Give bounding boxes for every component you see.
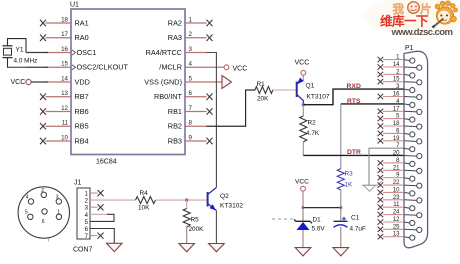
svg-text:10K: 10K [138, 205, 150, 212]
J1 pin numbers [85, 192, 89, 241]
svg-text:KT3107: KT3107 [307, 94, 330, 101]
wire RA4/RTCC to Q2 collector [207, 53, 217, 188]
svg-text:RB5: RB5 [75, 122, 89, 131]
svg-text:4.0 MHz: 4.0 MHz [14, 57, 38, 64]
svg-text:17: 17 [393, 106, 400, 112]
svg-text:RA2: RA2 [168, 19, 182, 28]
transistor Q2 KT3102 [208, 188, 244, 211]
P1 pin 25 [378, 224, 422, 232]
pin 15 OSC2 [46, 66, 72, 68]
NC X pin6 [207, 94, 213, 101]
svg-text:17: 17 [61, 31, 68, 38]
svg-text:VSS (GND): VSS (GND) [144, 78, 182, 87]
ground below R5 [179, 244, 195, 252]
svg-text:4.7uF: 4.7uF [350, 226, 366, 233]
svg-text:RTS: RTS [347, 98, 361, 105]
svg-text:2: 2 [189, 31, 193, 38]
svg-text:R4: R4 [140, 190, 149, 197]
svg-text:1K: 1K [345, 182, 354, 189]
crystal Y1 [3, 46, 38, 65]
NC X J1 pin3 [98, 204, 104, 210]
NC X pin2 [207, 35, 213, 42]
svg-text:20K: 20K [257, 96, 269, 103]
svg-text:RB7: RB7 [75, 92, 89, 101]
P1 pin 6 [378, 128, 415, 137]
resistor R3 (blue) [337, 169, 353, 208]
svg-text:U1: U1 [70, 2, 79, 9]
pin 8 RB2 [185, 125, 207, 127]
svg-text:9: 9 [189, 135, 193, 142]
P1 pin 5 [378, 114, 415, 123]
P1 pin 7 [396, 143, 415, 152]
P1 pin 18 [378, 121, 422, 129]
svg-text:RB6: RB6 [75, 107, 89, 116]
P1 pin 17 [378, 106, 422, 114]
P1 pin 10 [378, 187, 415, 196]
DIN pin 1 [56, 214, 61, 219]
P1 pin 1 [378, 55, 415, 64]
svg-text:OSC2/CLKOUT: OSC2/CLKOUT [77, 63, 129, 72]
svg-text:12: 12 [61, 105, 68, 112]
resistor R4 [136, 190, 156, 212]
svg-text:VCC: VCC [295, 179, 309, 186]
svg-text:24: 24 [393, 210, 400, 216]
pin 16 OSC1 [46, 52, 72, 54]
svg-text:RB2: RB2 [168, 122, 182, 131]
LEFTPARTS [3, 39, 49, 86]
svg-text:5: 5 [25, 210, 28, 216]
P1 pin 14 [378, 62, 422, 70]
svg-text:22: 22 [393, 180, 400, 186]
svg-text:200K: 200K [189, 226, 205, 233]
svg-text:P1: P1 [405, 45, 414, 52]
svg-text:R5: R5 [191, 217, 200, 224]
svg-text:2: 2 [41, 188, 44, 194]
power VCC above D1 [295, 179, 309, 208]
U1 left pins [46, 23, 72, 141]
resistor R1 [255, 81, 273, 103]
DIN socket outline [18, 187, 69, 238]
pin 4 /MCLR [185, 66, 224, 68]
svg-text:R3: R3 [345, 171, 354, 178]
svg-text:RXD: RXD [347, 83, 361, 90]
svg-text:8: 8 [189, 120, 193, 127]
pin 18 RA1 [46, 22, 72, 24]
svg-text:RA4/RTCC: RA4/RTCC [146, 48, 182, 57]
NC X pin13 [40, 94, 46, 101]
svg-text:Q1: Q1 [306, 83, 315, 90]
svg-text:4: 4 [189, 61, 193, 68]
P1 [378, 45, 428, 248]
NC X pin1 [207, 20, 213, 26]
U1 left pin numbers [61, 17, 68, 142]
U1 right pins [185, 23, 224, 141]
DIN pin 6 [42, 209, 47, 214]
op-amp U1 body (PIC 16C84 IC box) [70, 2, 185, 166]
NC X pin17 [40, 35, 46, 42]
P1 pin 2 [378, 69, 415, 78]
svg-text:VCC: VCC [11, 79, 26, 86]
J1 pin 1 stub [90, 192, 98, 194]
ground below Q2 [209, 244, 225, 252]
svg-text:11: 11 [62, 120, 69, 127]
svg-text:16C84: 16C84 [96, 159, 117, 166]
P1 pin 19 [378, 136, 422, 144]
svg-text:www.dzsc.com: www.dzsc.com [391, 27, 454, 38]
junction Q1 collector node [302, 103, 305, 106]
connector P1 DB25 body [404, 51, 428, 247]
svg-text:10: 10 [61, 135, 68, 142]
LOGO (watermark, decorative) [363, 0, 460, 38]
power VCC above Q1 [295, 60, 310, 76]
U1 right no-connect X marks [207, 20, 213, 144]
pin 2 RA3 [185, 37, 207, 39]
faint dashed stub left of D1 [272, 218, 296, 220]
wire J1 pin6 to ground [90, 229, 114, 244]
svg-text:13: 13 [393, 232, 400, 238]
resistor R2 [300, 105, 320, 156]
ground below D1 [295, 248, 311, 256]
pin 5 VSS [185, 81, 222, 83]
J1 pin 7 stub [90, 235, 98, 237]
NC X pin18 [40, 20, 46, 26]
P1 pin 15 [378, 77, 422, 85]
U1 left no-connect X marks [40, 20, 46, 144]
power VCC at VDD pin14 [11, 79, 49, 86]
P1 pin 8 [378, 158, 415, 167]
svg-text:1: 1 [189, 17, 193, 24]
P1 pin 4 [396, 99, 415, 108]
svg-text:C1: C1 [351, 215, 360, 222]
P1 pin 22 [378, 180, 422, 188]
svg-text:DTR: DTR [347, 149, 361, 156]
svg-text:4.7K: 4.7K [306, 130, 320, 137]
P1 pin 24 [378, 210, 422, 218]
pin 11 RB5 [46, 125, 72, 127]
svg-text:D1: D1 [313, 217, 322, 224]
svg-text:23: 23 [393, 195, 400, 201]
svg-text:18: 18 [61, 17, 68, 24]
pin 6 RB0/INT [185, 96, 207, 98]
DIN pin 4 [28, 199, 33, 204]
ground below C1 [333, 248, 349, 256]
svg-text:KT3102: KT3102 [220, 203, 243, 210]
P1 pin 12 [378, 217, 415, 226]
svg-text:6: 6 [189, 90, 193, 97]
svg-text:RB3: RB3 [168, 137, 182, 146]
junction at D1 node [302, 206, 305, 209]
wire R4 to Q2 base [156, 199, 208, 201]
svg-text:/MCLR: /MCLR [159, 63, 182, 72]
connector J1 box [77, 188, 90, 239]
wire J1 pin2 to R4 [90, 199, 136, 201]
P1 pin 21 [378, 165, 422, 173]
wire RB2 pin8 to R1 [207, 90, 256, 126]
svg-text:16: 16 [393, 92, 400, 98]
junction at C1 node [339, 206, 342, 209]
svg-text:21: 21 [393, 165, 400, 171]
svg-text:VCC: VCC [233, 66, 248, 73]
svg-text:18: 18 [393, 121, 400, 127]
pin 3 RA4/RTCC [185, 52, 207, 54]
NC X pin7 [207, 108, 213, 114]
wire RTS from P1 pin4 [341, 103, 404, 105]
svg-text:VDD: VDD [75, 78, 90, 87]
svg-text:5: 5 [189, 76, 193, 83]
svg-text:RA1: RA1 [75, 19, 89, 28]
svg-text:14: 14 [393, 62, 400, 68]
wire DTR from R2 to P1 pin20 [303, 154, 404, 156]
zener diode D1 5.6V [294, 208, 325, 248]
MIDPARTS [90, 53, 297, 252]
svg-text:19: 19 [393, 136, 400, 142]
DIN pin 2 [41, 192, 46, 197]
wire crystal bottom to OSC2 [26, 66, 48, 68]
signal ground symbol (gray) [362, 182, 382, 192]
svg-text:RA3: RA3 [168, 33, 182, 42]
svg-text:12: 12 [393, 217, 400, 223]
crystal Y1 top lead wire [8, 39, 27, 53]
svg-text:VCC: VCC [295, 60, 310, 67]
RIGHTPARTS [272, 60, 404, 256]
svg-text:4: 4 [26, 194, 29, 200]
wire P1 pin7 to signal ground [369, 148, 404, 185]
resistor R5 [183, 200, 204, 243]
wire node D1-C1-R3 [303, 207, 341, 209]
svg-text:25: 25 [393, 224, 400, 230]
NC X J1 pin1 [98, 190, 104, 196]
pin 1 RA2 [185, 22, 207, 24]
svg-text:CON7: CON7 [73, 247, 93, 254]
junction node R5/R4 [185, 198, 188, 201]
capacitor C1 4.7uF [334, 208, 366, 248]
svg-text:OSC1: OSC1 [77, 48, 97, 57]
wire J1 pin4 to pin5 bracket [90, 213, 107, 215]
svg-text:6: 6 [42, 219, 45, 225]
svg-text:20: 20 [393, 151, 400, 157]
DIN pin 5 [28, 214, 33, 219]
wire R1 to Q1 base [273, 89, 297, 91]
svg-text:Y1: Y1 [16, 47, 24, 54]
pin 13 RB7 [46, 96, 72, 98]
svg-text:RB1: RB1 [168, 107, 182, 116]
DIN pin 3 [56, 199, 61, 204]
P1 pin 20 [393, 151, 422, 159]
svg-text:16: 16 [61, 46, 68, 53]
pin 12 RB6 [46, 111, 72, 113]
svg-text:14: 14 [61, 76, 68, 83]
svg-text:J1: J1 [74, 180, 82, 187]
svg-text:RA0: RA0 [75, 33, 89, 42]
svg-text:5.6V: 5.6V [312, 226, 326, 233]
svg-text:3: 3 [189, 46, 193, 53]
pin 17 RA0 [46, 37, 72, 39]
svg-text:RB4: RB4 [75, 137, 89, 146]
J1 pin 3 stub [90, 206, 98, 208]
P1 pin 23 [378, 195, 422, 203]
svg-text:R2: R2 [308, 120, 317, 127]
J1DIN [18, 180, 122, 254]
P1 pin 9 [378, 173, 415, 182]
transistor Q1 KT3107 [297, 75, 330, 104]
NC X pin9 [207, 138, 213, 144]
pin 9 RB3 [185, 140, 207, 142]
NC X pin12 [40, 108, 46, 114]
DIN pin labels [25, 188, 60, 244]
svg-text:R1: R1 [257, 81, 266, 88]
NC X pin10 [40, 138, 46, 144]
P1 pin 16 [378, 92, 422, 100]
svg-text:Q2: Q2 [220, 193, 229, 200]
svg-text:7: 7 [47, 238, 50, 244]
pin 10 RB4 [46, 140, 72, 142]
svg-text:15: 15 [61, 61, 68, 68]
P1 pin 13 [378, 232, 415, 241]
svg-text:3: 3 [56, 194, 59, 200]
svg-text:15: 15 [393, 77, 400, 83]
svg-text:1: 1 [57, 210, 60, 216]
NC X J1 pin7 [98, 233, 104, 239]
svg-text:13: 13 [61, 90, 68, 97]
wire RXD from Q1 collector to P1 pin3 [303, 89, 404, 105]
P1 pin 11 [378, 202, 415, 211]
wire Q2 emitter to ground [215, 211, 217, 244]
P1 pin 3 [396, 84, 415, 93]
svg-text:10: 10 [393, 187, 400, 193]
svg-text:11: 11 [393, 202, 400, 208]
svg-text:RB0/INT: RB0/INT [154, 92, 183, 101]
svg-text:7: 7 [189, 105, 193, 112]
pin 14 VDD [46, 81, 72, 83]
power VCC at /MCLR pin4 [224, 65, 247, 73]
crystal Y1 bottom lead wire [8, 58, 27, 68]
U1 right pin numbers [189, 17, 193, 142]
wire crystal top to OSC1 [26, 52, 48, 54]
ground below J1 pin6 [107, 243, 123, 251]
pin 7 RB1 [185, 111, 207, 113]
NC X pin11 [40, 123, 46, 129]
ground arrow at VSS pin5 [222, 76, 232, 89]
wire RTS down to R3 [340, 104, 342, 169]
